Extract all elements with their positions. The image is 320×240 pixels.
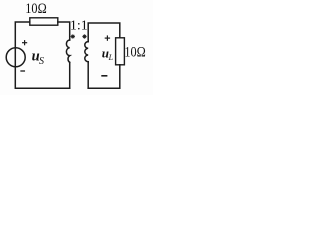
wire top-left: source top to resistor R1 [15,22,29,48]
minus sign of uL [102,75,107,77]
resistor R1 [30,18,58,25]
svg-text:1:1: 1:1 [70,18,88,33]
plus sign of uL [105,36,109,40]
wire load resistor bottom to secondary bottom [88,65,120,88]
svg-text:S: S [39,56,44,67]
wire primary bottom lead [69,62,71,88]
transformer T primary winding [66,40,69,62]
svg-text:L: L [108,53,114,62]
voltage source uS [6,48,25,67]
minus sign of source uS [21,70,24,72]
polarity mark secondary (asterisk) [83,35,86,38]
wire secondary bottom lead [87,62,89,88]
wire secondary top lead to load resistor [88,23,120,42]
polarity mark primary (asterisk) [71,35,74,38]
transformer T secondary winding [85,42,88,62]
wire through source (diameter) [14,48,16,67]
wire source bottom to bottom-left corner [15,67,69,88]
wire resistor R1 to transformer primary top [58,22,70,40]
resistor RL (load) [116,38,125,65]
plus sign of source uS [23,41,27,45]
svg-text:10Ω: 10Ω [124,45,146,61]
svg-text:10Ω: 10Ω [25,1,47,17]
